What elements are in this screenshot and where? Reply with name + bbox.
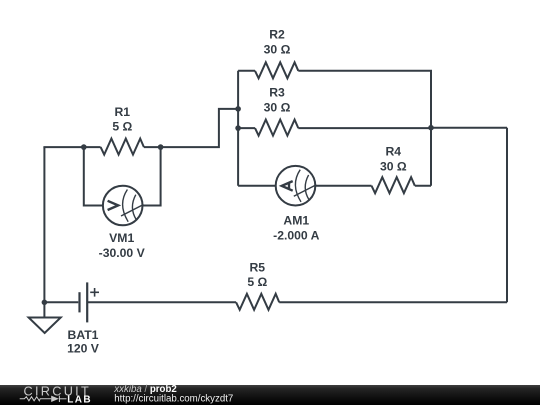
ground symbol xyxy=(29,318,61,334)
wire right top horizontal xyxy=(431,127,507,129)
wire R3 right xyxy=(298,127,431,129)
svg-text:5 Ω: 5 Ω xyxy=(247,275,267,289)
wire ground stem xyxy=(43,302,45,317)
bus vertical x=238 xyxy=(237,71,239,186)
battery plus sign xyxy=(90,288,99,297)
wire R4 right xyxy=(415,185,431,187)
svg-text:R1: R1 xyxy=(115,105,131,119)
wire top-left horizontal to R1 xyxy=(44,147,100,148)
wire R1 right to bus xyxy=(144,109,238,147)
voltmeter VM1 circle xyxy=(103,186,143,226)
svg-text:R2: R2 xyxy=(269,27,285,41)
node B (R1 right) xyxy=(158,144,164,150)
wire right rail xyxy=(506,128,508,303)
logo resistor-diode glyph xyxy=(20,396,67,402)
ammeter letter A (rotated -90) xyxy=(282,181,293,191)
logo diode triangle xyxy=(51,396,59,402)
ammeter AM1 circle xyxy=(276,166,316,206)
svg-text:-30.00 V: -30.00 V xyxy=(99,246,146,260)
node D (bus lower / R3) xyxy=(235,125,241,131)
svg-text:5 Ω: 5 Ω xyxy=(112,120,132,134)
wire voltmeter left branch xyxy=(84,147,103,205)
voltmeter VM1 gauge arcs xyxy=(121,190,144,222)
resistor R5 xyxy=(236,294,279,310)
ammeter AM1 gauge arcs xyxy=(294,170,317,202)
wire battery left xyxy=(44,301,78,303)
node E (right junction) xyxy=(428,125,434,131)
voltmeter letter V (rotated -90) xyxy=(108,201,119,210)
svg-text:30 Ω: 30 Ω xyxy=(380,159,407,173)
resistor R2 xyxy=(255,62,298,78)
wire R2 left xyxy=(238,70,255,72)
wire R5 right xyxy=(279,301,507,303)
svg-text:R4: R4 xyxy=(386,145,402,159)
battery BAT1 plates xyxy=(80,282,88,322)
wire R3 left xyxy=(238,127,255,129)
svg-text:LAB: LAB xyxy=(67,395,92,405)
wire ammeter left xyxy=(238,185,276,187)
node F (battery/ground) xyxy=(42,300,48,306)
svg-text:AM1: AM1 xyxy=(283,214,309,228)
svg-text:-2.000 A: -2.000 A xyxy=(273,229,319,243)
wire battery right to R5 xyxy=(87,301,236,303)
resistor R3 xyxy=(255,120,298,136)
svg-text:30 Ω: 30 Ω xyxy=(264,101,291,115)
wire voltmeter right branch xyxy=(143,147,161,205)
svg-text:30 Ω: 30 Ω xyxy=(264,43,291,57)
svg-text:R5: R5 xyxy=(250,260,266,274)
wire R2 right xyxy=(298,71,431,186)
node C (bus upper) xyxy=(235,106,241,112)
resistor R4 xyxy=(372,177,415,193)
svg-text:VM1: VM1 xyxy=(109,231,134,245)
resistor R1 xyxy=(101,139,144,155)
svg-text:http://circuitlab.com/ckyzdt7: http://circuitlab.com/ckyzdt7 xyxy=(114,394,233,405)
wire ammeter right to R4 xyxy=(315,185,371,187)
svg-text:120 V: 120 V xyxy=(67,342,100,356)
svg-text:BAT1: BAT1 xyxy=(68,328,99,342)
svg-text:R3: R3 xyxy=(269,85,285,99)
wire left rail vertical xyxy=(43,147,45,302)
node A (R1 left) xyxy=(81,144,87,150)
